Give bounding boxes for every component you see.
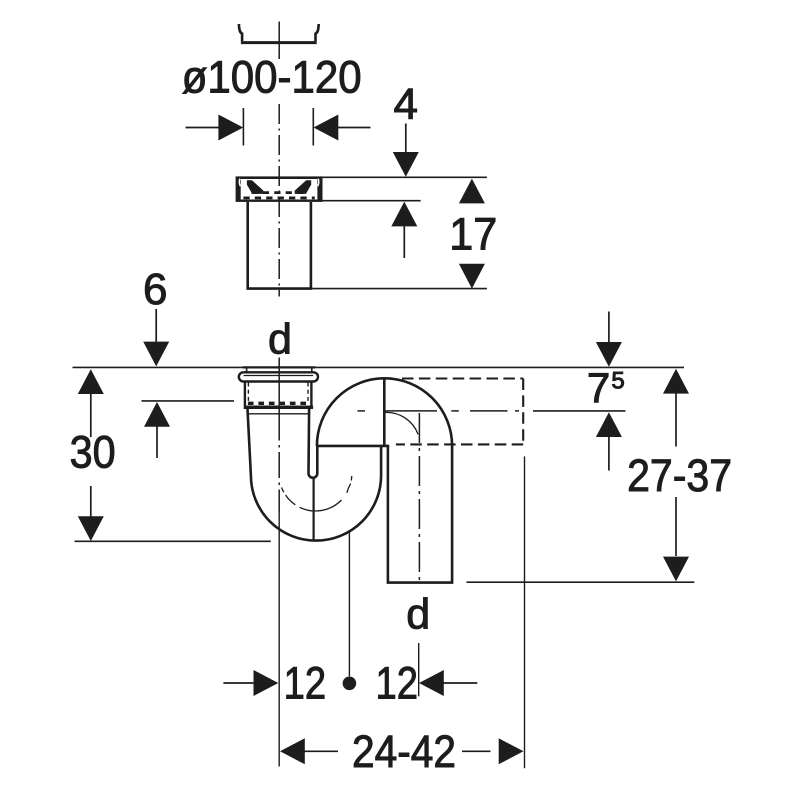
svg-text:24-42: 24-42 — [352, 726, 456, 777]
svg-text:d: d — [406, 590, 430, 638]
svg-text:7: 7 — [587, 364, 610, 411]
svg-text:27-37: 27-37 — [627, 450, 732, 501]
svg-text:5: 5 — [611, 368, 624, 395]
svg-text:17: 17 — [449, 208, 497, 259]
svg-text:ø100-120: ø100-120 — [182, 52, 362, 103]
svg-text:12: 12 — [376, 657, 419, 708]
svg-text:30: 30 — [70, 426, 116, 477]
svg-text:4: 4 — [394, 80, 418, 129]
svg-text:12: 12 — [284, 657, 327, 708]
svg-text:d: d — [268, 316, 292, 364]
svg-text:6: 6 — [143, 265, 167, 314]
